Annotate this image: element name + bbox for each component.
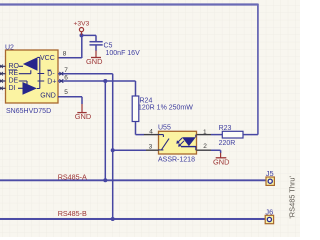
svg-text:RS485-B: RS485-B — [58, 209, 87, 218]
node junction A on RS485-A — [103, 178, 107, 182]
pin x markers on pins 7,6 — [59, 72, 63, 83]
wire ticks to D- D+ — [38, 74, 45, 82]
svg-text:VCC: VCC — [40, 55, 55, 62]
svg-text:U55: U55 — [158, 124, 171, 131]
svg-text:+3V3: +3V3 — [74, 20, 90, 27]
node junction B mid — [111, 148, 115, 152]
wire pin8 to +3V3 — [58, 35, 82, 58]
ground GND under opto pin2 — [213, 153, 229, 167]
IC U2 body — [5, 44, 58, 115]
svg-text:DE: DE — [9, 78, 19, 85]
svg-text:220R: 220R — [219, 140, 236, 147]
svg-text:GND: GND — [40, 93, 56, 100]
svg-text:100nF 16V: 100nF 16V — [106, 50, 141, 57]
svg-text:2: 2 — [203, 143, 207, 150]
U2 pin numbers — [63, 51, 69, 96]
svg-text:3: 3 — [149, 143, 153, 150]
wire +3V3 junction to C5 — [82, 35, 97, 41]
connector J5 — [266, 169, 275, 186]
connector J6 — [265, 207, 273, 223]
node junction A top — [103, 79, 107, 83]
U2 left pins RO RE DE DI — [0, 66, 6, 88]
svg-text:D-: D- — [47, 71, 55, 78]
svg-text:R23: R23 — [219, 125, 232, 132]
svg-text:R24: R24 — [140, 98, 153, 105]
wire RS485-A rail — [0, 179, 266, 181]
svg-text:C5: C5 — [104, 43, 113, 50]
wire DE internal — [19, 81, 27, 84]
op-amp buffer lower triangle (driver) — [23, 82, 37, 95]
svg-text:RE: RE — [9, 70, 19, 77]
wire vertical B to RS485-B — [112, 74, 114, 219]
wire RS485-B rail — [0, 218, 265, 220]
wire R23 to rail — [243, 134, 258, 136]
svg-text:SN65HVD75D: SN65HVD75D — [6, 108, 51, 115]
wire RO to triangle — [19, 65, 23, 67]
wire C5 bottom — [95, 46, 97, 51]
wire opto pin1 to R23 — [211, 134, 222, 136]
wire rail right vertical to R23 — [257, 4, 259, 135]
node junction B on RS485-B — [111, 217, 115, 221]
wire opto pin2 to gnd — [211, 150, 221, 153]
opto U55 body — [158, 124, 197, 163]
wire pin6 D+ to R24 — [58, 80, 136, 82]
resistor R24 — [132, 81, 193, 135]
wire pin7 D- to vertical B — [58, 73, 113, 75]
svg-text:7: 7 — [64, 67, 68, 74]
overline D- — [47, 69, 51, 71]
svg-text:5: 5 — [64, 89, 68, 96]
wire vertical A to RS485-A — [104, 81, 106, 180]
svg-text:U2: U2 — [5, 44, 14, 51]
svg-text:RO: RO — [9, 63, 20, 70]
pin-end x markers left — [0, 65, 3, 90]
wire pin5 to gnd — [58, 97, 82, 104]
svg-text:D+: D+ — [47, 78, 56, 85]
U55 pin numbers — [149, 129, 208, 151]
LED inside U55 — [176, 135, 196, 151]
switch symbol inside U55 — [159, 135, 170, 150]
op-amp buffer upper triangle (receiver) — [23, 57, 38, 71]
svg-text:ASSR-1218: ASSR-1218 — [158, 156, 195, 163]
svg-text:DI: DI — [9, 85, 16, 92]
svg-text:GND: GND — [75, 112, 91, 121]
U2 pin names — [9, 55, 57, 99]
power port +3V3 — [74, 20, 90, 35]
svg-text:GND: GND — [213, 157, 229, 166]
svg-text:8: 8 — [63, 51, 67, 58]
node +3V3 junction — [80, 33, 84, 37]
overline RE — [9, 69, 18, 71]
wire DI to triangle — [18, 87, 23, 89]
ground GND under C5 — [86, 51, 102, 67]
wire RE internal — [19, 70, 31, 74]
svg-text:RS485-A: RS485-A — [58, 173, 87, 182]
ground GND under pin5 — [75, 104, 91, 121]
U55 pins black — [144, 135, 211, 151]
wire top +24V rail — [0, 3, 258, 5]
svg-text:GND: GND — [86, 57, 102, 66]
svg-text:'RS485 Thru': 'RS485 Thru' — [288, 175, 297, 218]
svg-text:120R 1% 250mW: 120R 1% 250mW — [138, 105, 193, 112]
resistor R23 — [219, 125, 243, 147]
wire internal bus — [37, 57, 40, 88]
wire junction B to opto pin3 — [113, 149, 146, 151]
capacitor C5 — [90, 42, 141, 57]
